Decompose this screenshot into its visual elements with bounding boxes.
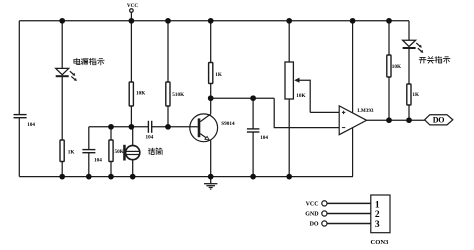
LED D2 (switch indicator) [403, 40, 424, 53]
junction node dots top rail [59, 18, 392, 24]
wire left frame upper [18, 21, 20, 115]
wire R8 to output line [408, 105, 410, 120]
capacitor C4 104 [247, 129, 260, 132]
resistor R2 1K [60, 140, 64, 162]
wire R7 to output line [388, 77, 390, 120]
wire emitter down [210, 141, 212, 177]
wire mic signal line left [89, 126, 149, 128]
junction node dots collector line [208, 95, 256, 101]
connector CON3 [322, 195, 390, 233]
svg-text:10K: 10K [136, 91, 145, 97]
svg-text:104: 104 [260, 135, 268, 141]
wire R6 to collector node [210, 84, 212, 99]
resistor R4 510K [166, 82, 170, 106]
svg-text:S9014: S9014 [221, 121, 235, 127]
svg-text:VCC: VCC [306, 202, 319, 208]
resistor R3 10K (mic bias) [129, 82, 133, 106]
wire base line right of C3 [152, 126, 198, 128]
svg-text:GND: GND [305, 212, 319, 218]
port DO tag [425, 115, 453, 125]
wire R2 to ground rail [61, 162, 63, 177]
wire 510K branch top [167, 21, 169, 82]
wire op-amp output [367, 119, 425, 121]
wire corner down to inverting input [274, 98, 339, 127]
wire R5 to ground rail [110, 162, 112, 177]
svg-text:3: 3 [375, 220, 380, 230]
ground symbol [204, 177, 217, 190]
microphone MK1 [123, 145, 140, 161]
junction node dots ground rail [59, 174, 292, 180]
svg-text:VCC: VCC [127, 3, 138, 9]
wire LED1 to R2 [61, 76, 63, 140]
capacitor C2 104 [82, 150, 95, 153]
wire LED2 branch top [408, 21, 410, 40]
capacitor C1 104 (left frame) [14, 115, 27, 118]
wire C2 to ground rail [88, 153, 90, 177]
svg-text:510K: 510K [172, 92, 184, 98]
wire R3 to mic node [130, 106, 132, 127]
wire mic bottom lead [132, 160, 134, 177]
potentiometer RP1 10K [285, 62, 310, 112]
resistor R5 50K [109, 140, 113, 162]
svg-text:1: 1 [375, 200, 380, 210]
junction node dots signal line [108, 124, 171, 130]
junction node dots output line [386, 117, 412, 123]
wire collector output line [211, 97, 275, 99]
wire LED1 branch top [61, 21, 63, 69]
wire pot bottom lead [288, 99, 290, 177]
svg-text:1K: 1K [215, 72, 222, 78]
capacitor C3 104 (series coupling) [148, 121, 151, 133]
svg-text:10K: 10K [296, 93, 305, 99]
wire collector up [210, 98, 212, 114]
label chinese: switch indicator [419, 57, 450, 64]
op-amp U1 LM393 [339, 21, 366, 177]
svg-text:DO: DO [310, 222, 319, 228]
svg-text:2: 2 [375, 210, 380, 220]
svg-text:DO: DO [433, 116, 445, 125]
wire wiper to non-inverting input [310, 111, 339, 113]
label chinese: power indicator [74, 58, 104, 65]
svg-text:LM393: LM393 [357, 108, 374, 114]
wire mic bias branch (VCC to R 10K) [130, 21, 132, 82]
wire C4 to ground rail [252, 132, 254, 177]
wire down to C2 [88, 127, 90, 150]
wire C4 branch top [252, 98, 254, 129]
label chinese: microphone [148, 148, 162, 155]
resistor R6 1K (collector load) [209, 63, 213, 84]
svg-text:104: 104 [94, 158, 102, 164]
svg-text:10K: 10K [392, 64, 401, 70]
LED D1 (power indicator) [56, 68, 77, 81]
wire left frame lower [18, 118, 20, 177]
svg-text:104: 104 [27, 122, 35, 128]
svg-text:1K: 1K [68, 150, 75, 156]
wire collector 1K branch top [210, 21, 212, 63]
wire pot top lead [288, 21, 290, 62]
svg-text:104: 104 [146, 135, 154, 141]
wire top power rail [19, 20, 409, 22]
wire LED2 to R8 [408, 48, 410, 84]
resistor R8 1K [407, 84, 411, 105]
power flag VCC [130, 9, 134, 21]
resistor R7 10K [387, 55, 391, 77]
wire R4 to base line [167, 106, 169, 127]
wire 50K branch [110, 127, 112, 140]
transistor Q1 S9014 [190, 114, 218, 142]
svg-text:CON3: CON3 [371, 239, 390, 246]
svg-text:1K: 1K [412, 92, 419, 98]
wire mic top lead [132, 127, 134, 146]
wire bottom ground rail [19, 176, 353, 178]
svg-text:50K: 50K [115, 149, 124, 155]
wire right 10K branch [388, 21, 390, 55]
